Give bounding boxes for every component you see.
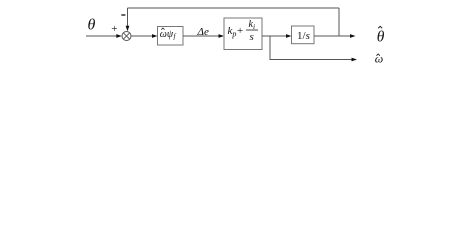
svg-text:ω: ω [375, 52, 383, 66]
svg-text:+: + [111, 23, 117, 35]
svg-text:Δe: Δe [197, 26, 209, 38]
svg-text:θ: θ [377, 28, 385, 45]
svg-text:θ: θ [88, 16, 96, 33]
svg-text:s: s [250, 31, 254, 43]
svg-text:+: + [237, 25, 243, 37]
svg-text:1/s: 1/s [297, 30, 310, 42]
